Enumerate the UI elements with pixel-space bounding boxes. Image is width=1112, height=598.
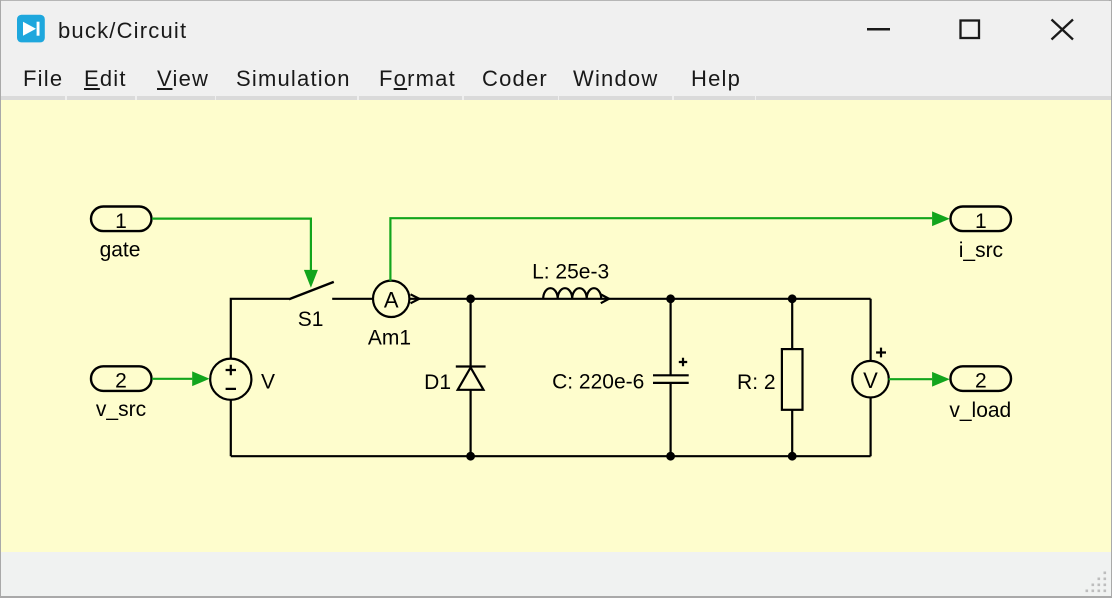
junction node top diode	[466, 294, 475, 303]
inductor arrow	[601, 294, 609, 303]
svg-text:V: V	[863, 368, 878, 393]
junction node bottom resistor	[788, 452, 797, 461]
svg-text:v_load: v_load	[949, 399, 1011, 422]
input port 2	[91, 366, 152, 391]
output port 2	[951, 366, 1012, 391]
voltmeter plus sign	[876, 348, 886, 358]
window frame	[0, 0, 1112, 1]
menu separator line	[1, 96, 1111, 100]
menu Coder	[482, 68, 548, 90]
window title	[58, 18, 187, 44]
capacitor plus sign	[679, 358, 687, 366]
ammeter out arrow	[411, 294, 420, 303]
svg-text:C: 220e-6: C: 220e-6	[552, 371, 644, 394]
svg-text:V: V	[261, 371, 275, 394]
wire ammeter to i_src (green)	[390, 218, 932, 281]
input port 1	[91, 207, 152, 232]
inductor L1	[543, 288, 601, 299]
svg-text:R: 2: R: 2	[737, 371, 776, 394]
voltage source V1	[210, 359, 251, 400]
menu Simulation	[236, 68, 351, 90]
junction node top resistor	[788, 294, 797, 303]
junction node bottom capacitor	[666, 452, 675, 461]
minimize button	[867, 28, 890, 31]
v_src wire arrowhead	[192, 371, 209, 386]
junction node top capacitor	[666, 294, 675, 303]
v_load wire arrowhead	[932, 372, 950, 387]
maximize button	[961, 21, 980, 39]
svg-text:2: 2	[975, 370, 987, 393]
svg-text:2: 2	[115, 370, 127, 393]
svg-text:i_src: i_src	[959, 239, 1003, 262]
switch S1	[289, 282, 334, 299]
gate wire arrowhead	[304, 270, 318, 288]
menu Window	[573, 68, 658, 90]
svg-text:1: 1	[115, 210, 127, 233]
svg-text:Am1: Am1	[368, 327, 411, 350]
svg-text:v_src: v_src	[96, 398, 146, 421]
svg-text:S1: S1	[298, 308, 324, 331]
app icon	[17, 15, 45, 43]
wire: switch to ammeter	[332, 298, 373, 300]
ammeter Am1	[373, 281, 409, 317]
svg-text:A: A	[384, 287, 399, 312]
wire: bottom rail	[231, 455, 871, 457]
svg-text:L: 25e-3: L: 25e-3	[532, 261, 609, 284]
menu View	[157, 68, 209, 90]
title bar	[1, 1, 1111, 57]
svg-text:gate: gate	[100, 239, 141, 262]
menu Edit	[84, 68, 127, 90]
i_src wire arrowhead	[932, 211, 950, 226]
output port 1	[951, 207, 1012, 232]
wire: source bottom	[230, 400, 232, 456]
wire: source top to switch	[231, 299, 289, 359]
diode D1	[456, 299, 486, 456]
wire voltmeter to v_load (green)	[889, 378, 933, 380]
resistor R1	[782, 299, 803, 456]
close button	[1052, 20, 1074, 40]
resize grip	[1086, 572, 1107, 593]
svg-text:1: 1	[975, 210, 987, 233]
wire v_src to source (green)	[152, 378, 192, 380]
schematic canvas	[1, 100, 1111, 552]
wire: voltmeter branch	[869, 299, 871, 456]
voltmeter Vm1	[852, 361, 889, 398]
svg-text:D1: D1	[424, 371, 451, 394]
menu Format	[379, 68, 456, 90]
status bar	[1, 552, 1111, 596]
junction node bottom diode	[466, 452, 475, 461]
wire gate to switch (green)	[152, 219, 311, 271]
menu Help	[691, 68, 741, 90]
wire: top rail ammeter to inductor	[409, 298, 870, 300]
menu bar	[1, 57, 1111, 96]
capacitor C1	[653, 299, 689, 456]
menu File	[23, 68, 63, 90]
